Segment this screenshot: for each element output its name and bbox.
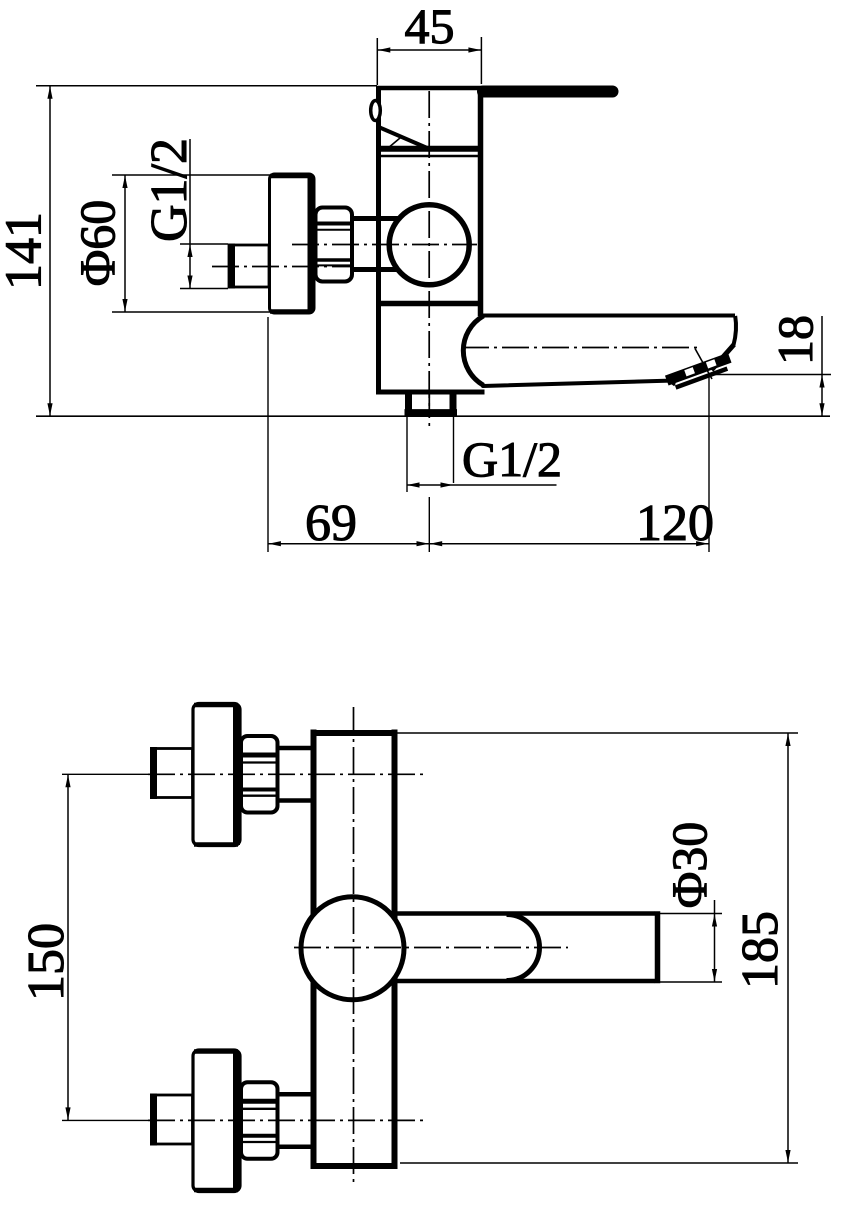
dimension D30 extension lines (660, 913, 722, 915)
escutcheon bottom (front view) (193, 1050, 240, 1192)
svg-text:18: 18 (767, 315, 823, 365)
dimension D30 arrow down (712, 969, 717, 982)
valve horizontal centerline (side view) (292, 244, 477, 246)
extension line center (69/120 dim) (428, 497, 430, 552)
dimension 141 arrow down (47, 403, 52, 416)
mount centerline bottom (148, 1119, 424, 1121)
eccentric adapter bottom (front view) (278, 1092, 317, 1097)
handle pivot ellipse (371, 101, 381, 121)
dimension 18 line (821, 316, 823, 416)
spout top line (482, 314, 735, 318)
dimension G1/2 wall thread line (189, 139, 191, 289)
spout tube (front view) (385, 911, 655, 916)
union nut top (front view) (241, 736, 278, 813)
eccentric adapter top (front view) (278, 746, 317, 751)
dimension G1/2 wall thread extension lines (180, 243, 228, 245)
dimension G1/2 outlet arrow right (441, 482, 454, 487)
spout inner pipe end arc (507, 915, 540, 981)
wall pipe left cap (228, 244, 235, 289)
dimension 141 arrow up (47, 86, 52, 99)
dimension 150 extension bottom (62, 1119, 148, 1121)
spout end cap (734, 316, 737, 345)
handle bar (483, 86, 613, 98)
svg-text:69: 69 (305, 495, 357, 552)
extension line left (69 dim) (267, 317, 269, 552)
dimension 185 line (787, 733, 789, 1163)
union nut (side view) (316, 208, 353, 282)
dimension G1/2 arrow down (187, 276, 192, 289)
body vertical centerline (front view) (353, 707, 355, 1187)
dimension G1/2 outlet line (407, 484, 557, 486)
svg-text:120: 120 (636, 495, 714, 552)
stub centerline (428, 391, 430, 428)
escutcheon flange (side view) (270, 174, 315, 313)
union nut bottom (front view) (241, 1082, 278, 1159)
mount centerline top (148, 773, 424, 775)
body vertical centerline (side view) (428, 91, 430, 412)
dimension 45 line (377, 49, 481, 51)
dimension 150 extension top (62, 773, 148, 775)
dimension 120 arrow left (430, 541, 443, 546)
svg-text:45: 45 (405, 0, 455, 54)
spout tube end cap (655, 911, 661, 983)
dimension 141 line (49, 86, 51, 416)
svg-text:G1/2: G1/2 (462, 431, 562, 487)
dimension 69/120 line (268, 543, 709, 545)
spout bore diagonal line (695, 349, 712, 380)
svg-text:Φ60: Φ60 (69, 200, 125, 287)
dimension 45 extension lines (376, 38, 378, 85)
shower outlet stub (405, 392, 412, 413)
dimension 185 arrow down (785, 1150, 790, 1163)
handle lever diagonal (378, 127, 430, 150)
dimension 185 extension bottom (400, 1162, 798, 1164)
dimension 185 arrow up (785, 734, 790, 747)
dimension G1/2 arrow up (187, 245, 192, 258)
dimension 150 line (67, 774, 69, 1120)
faucet body (side view) : edges (376, 86, 381, 394)
spout centerline (front view) (294, 947, 568, 949)
svg-text:141: 141 (0, 212, 53, 290)
eccentric adapter (side view) (351, 216, 401, 221)
ball joint (front view) (301, 897, 404, 1000)
baseline / wall reference line (36, 415, 830, 417)
wall pipe inlet (side view) (229, 245, 269, 287)
spout root concave arc (463, 316, 483, 386)
dimension 18 arrow down (819, 403, 824, 416)
svg-text:185: 185 (732, 911, 789, 989)
extension line right (120 dim) (708, 377, 710, 552)
dimension D60 line (124, 175, 126, 312)
svg-text:Φ30: Φ30 (661, 822, 717, 909)
extension line top of body (141 dim) (36, 85, 377, 87)
dimension 45 arrow left (378, 47, 391, 52)
lever lower edge (385, 138, 401, 151)
dimension 150 arrow up (65, 775, 70, 788)
dimension 18 extension line (712, 374, 831, 376)
dimension 69 arrow left (268, 541, 281, 546)
dimension 120 arrow right (696, 541, 709, 546)
spout end chamfer (712, 345, 735, 371)
dimension 69 arrow right (417, 541, 430, 546)
dimension D30 line (714, 900, 716, 982)
svg-text:G1/2: G1/2 (141, 138, 198, 242)
dimension 150 arrow down (65, 1107, 70, 1120)
dimension 185 extension top (397, 732, 798, 734)
dimension 45 arrow right (468, 47, 481, 52)
dimension D60 arrow down (122, 299, 127, 312)
faucet body (front view) edges (311, 730, 317, 1170)
dimension G1/2 outlet arrow left (407, 482, 420, 487)
svg-text:150: 150 (18, 923, 75, 1001)
valve circle (389, 205, 469, 285)
wall pipe bottom (front view) (152, 1095, 193, 1144)
escutcheon top (front view) (193, 704, 240, 846)
wall pipe top (front view) (152, 749, 193, 798)
dimension D30 arrow up (712, 914, 717, 927)
pipe horizontal centerline (side view) (212, 266, 352, 268)
dimension D60 extension lines (112, 174, 270, 176)
spout bottom line (483, 381, 670, 386)
dimension D60 arrow up (122, 176, 127, 189)
dimension G1/2 outlet extension lines (406, 417, 408, 492)
spout centerline (side view) (462, 347, 700, 349)
dimension 18 arrow up (819, 375, 824, 388)
aerator (665, 353, 734, 392)
